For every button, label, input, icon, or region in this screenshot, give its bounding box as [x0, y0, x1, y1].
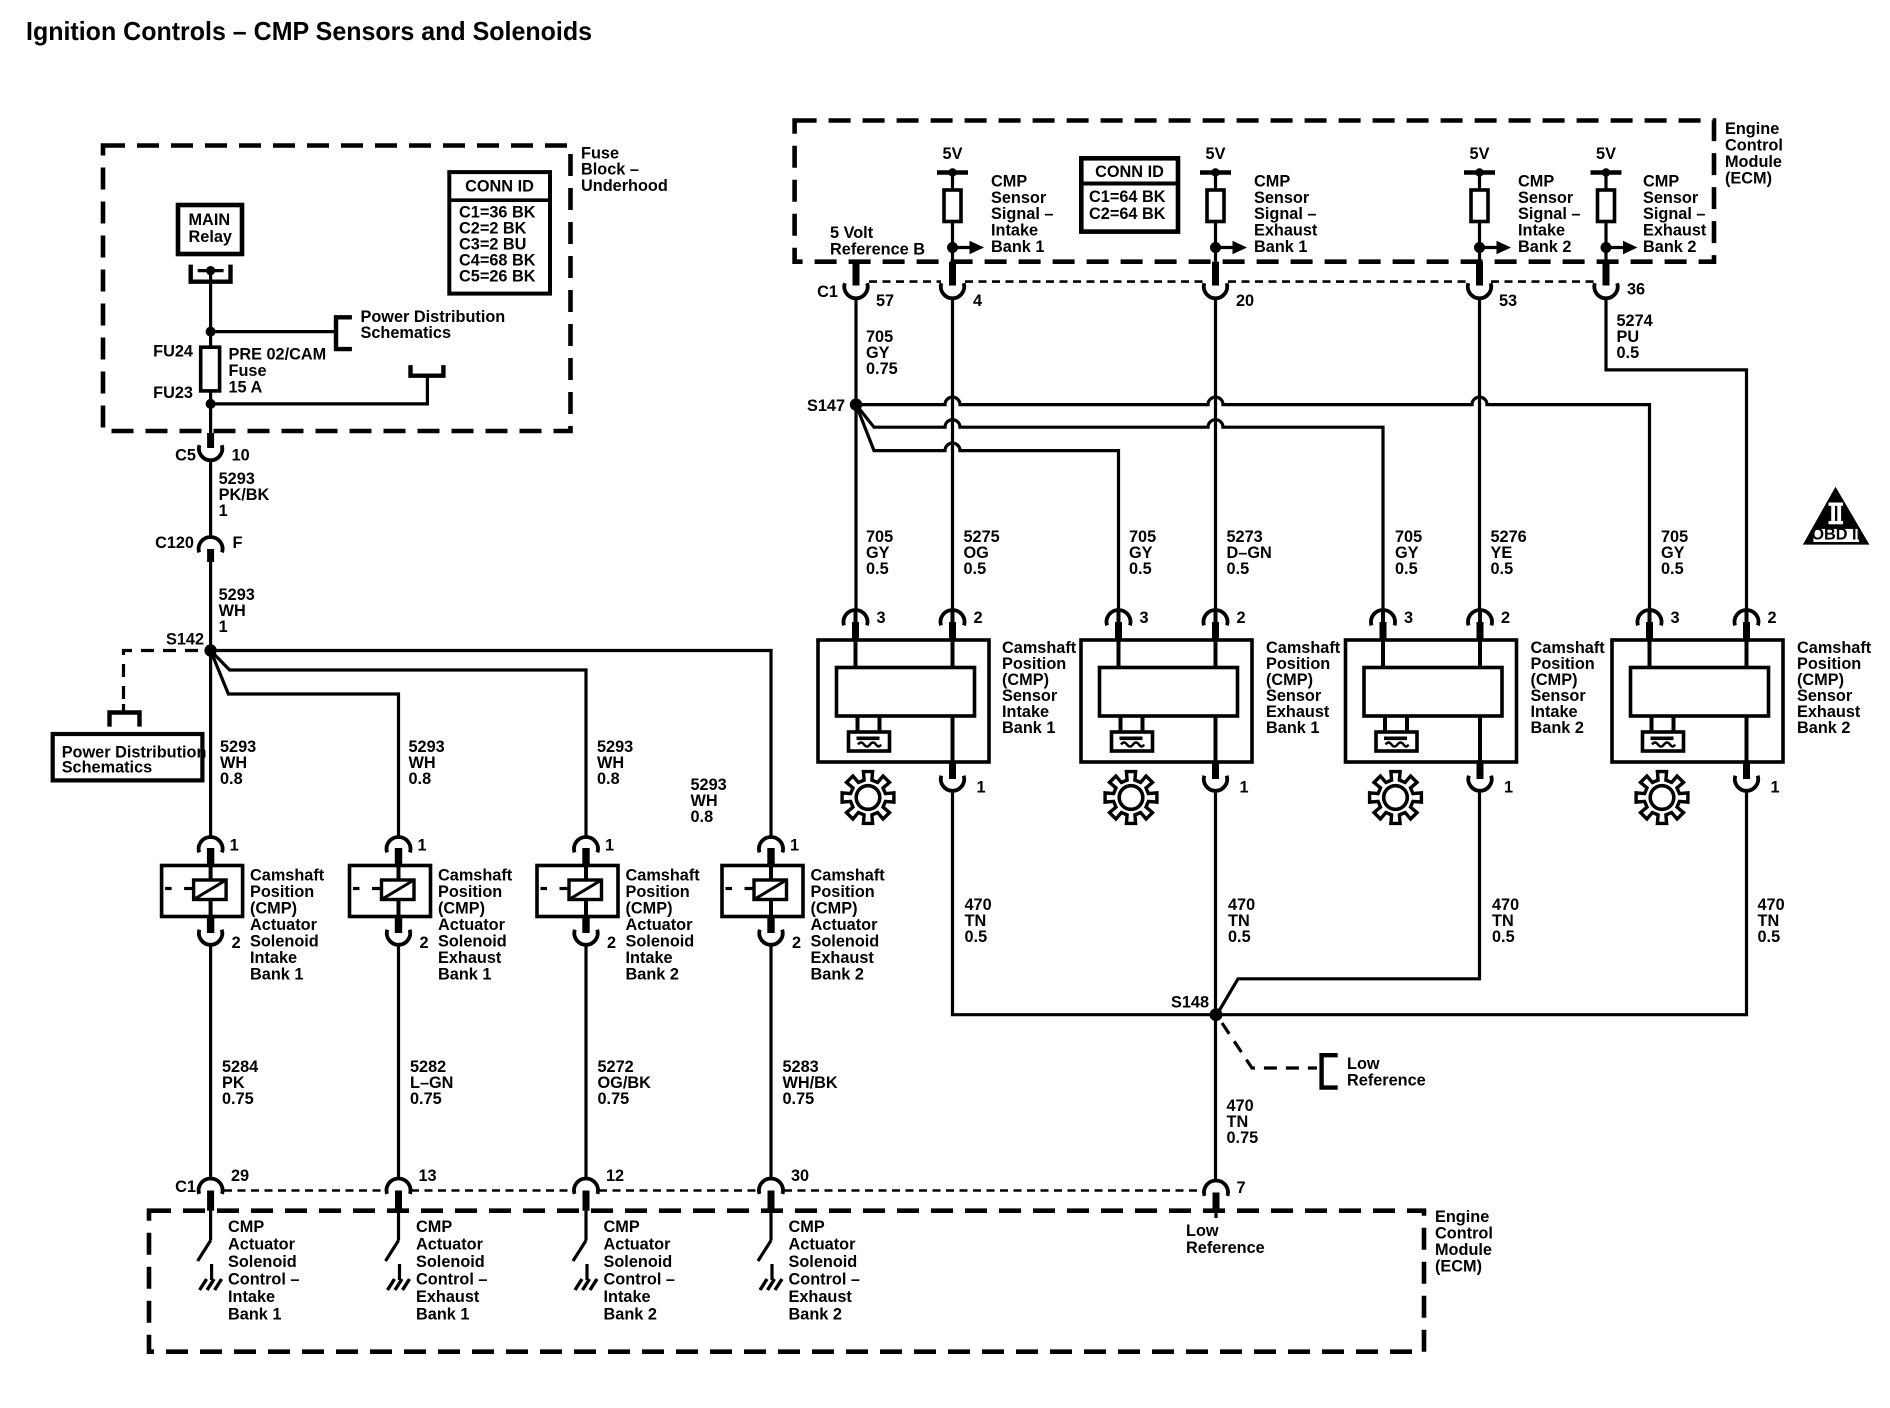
svg-text:C1: C1	[175, 1178, 196, 1196]
node junction below fuse	[206, 399, 216, 409]
svg-text:0.5: 0.5	[965, 928, 988, 946]
CONN ID table (ECM)	[1081, 158, 1178, 231]
Power Distribution Schematics reference box	[53, 734, 207, 780]
svg-text:Actuator: Actuator	[438, 916, 506, 934]
wire 470 TN 0.5 sensor 2 pin 1 through S148	[1216, 791, 1256, 1181]
svg-text:0.5: 0.5	[1491, 560, 1514, 578]
svg-text:0.5: 0.5	[1227, 560, 1250, 578]
svg-text:MAIN: MAIN	[189, 211, 231, 229]
relay K: MAIN Relay	[178, 205, 242, 282]
svg-text:(CMP): (CMP)	[438, 900, 485, 918]
wire S142 right to solenoid 4	[211, 651, 771, 839]
svg-text:Intake: Intake	[250, 949, 297, 967]
svg-text:57: 57	[876, 292, 894, 310]
wire S142 down to solenoid 1	[209, 651, 212, 839]
svg-text:CMP: CMP	[416, 1218, 452, 1236]
svg-text:Intake: Intake	[228, 1288, 275, 1306]
svg-text:Actuator: Actuator	[416, 1236, 484, 1254]
svg-text:Bank 1: Bank 1	[1002, 719, 1055, 737]
svg-text:Position: Position	[811, 883, 875, 901]
svg-text:Solenoid: Solenoid	[416, 1253, 485, 1271]
svg-text:Exhaust: Exhaust	[1254, 222, 1318, 240]
5V supply for CMP sensor signal intake bank 1	[937, 145, 984, 298]
svg-text:Sensor: Sensor	[1643, 189, 1699, 207]
svg-text:Schematics: Schematics	[62, 759, 153, 777]
connector C5 pin 10	[175, 433, 250, 464]
CONN ID table (fuse block)	[449, 172, 550, 294]
svg-text:CMP: CMP	[1643, 173, 1679, 191]
svg-text:Position: Position	[626, 883, 690, 901]
solenoid L1: CMP actuator solenoid intake bank 1	[162, 837, 325, 984]
5V supply for CMP sensor signal exhaust bank 1	[1200, 145, 1247, 298]
svg-text:3: 3	[877, 609, 886, 627]
wire from MAIN relay down to junction	[209, 272, 212, 332]
fuse block underhood dashed enclosure	[103, 144, 668, 431]
connector C1 (ECM bottom) dotted row	[175, 1178, 1202, 1196]
svg-text:Solenoid: Solenoid	[438, 933, 507, 951]
svg-text:F: F	[233, 534, 243, 552]
svg-text:Bank 2: Bank 2	[1797, 719, 1850, 737]
svg-text:Fuse: Fuse	[229, 362, 267, 380]
svg-text:2: 2	[1501, 609, 1510, 627]
svg-text:Solenoid: Solenoid	[604, 1253, 673, 1271]
svg-text:Signal –: Signal –	[991, 205, 1053, 223]
OBD II symbol	[1803, 487, 1870, 545]
ECM driver: CMP actuator solenoid control - intake bank 2	[573, 1178, 675, 1323]
svg-text:2: 2	[232, 934, 241, 952]
svg-text:Bank 2: Bank 2	[626, 966, 679, 984]
svg-text:0.5: 0.5	[866, 560, 889, 578]
wire label 5293 WH 0.8 (solenoid 2)	[409, 738, 445, 788]
CMP sensor B3: camshaft position sensor intake bank 2	[1346, 609, 1606, 823]
wire label 5276 YE 0.5 (sensor 3 pin 2)	[1491, 528, 1527, 578]
svg-text:Fuse: Fuse	[581, 144, 619, 162]
splice S147	[807, 397, 862, 415]
svg-text:S142: S142	[166, 631, 204, 649]
svg-text:Sensor: Sensor	[991, 189, 1047, 207]
svg-text:(ECM): (ECM)	[1435, 1258, 1482, 1276]
solenoid L3: CMP actuator solenoid intake bank 2	[537, 837, 700, 984]
svg-text:0.8: 0.8	[597, 770, 620, 788]
ECM driver: CMP actuator solenoid control - exhaust bank 2	[758, 1178, 860, 1323]
svg-text:0.8: 0.8	[220, 770, 243, 788]
svg-text:C1=64 BK: C1=64 BK	[1089, 188, 1166, 206]
svg-text:2: 2	[974, 609, 983, 627]
svg-text:Bank 1: Bank 1	[991, 238, 1044, 256]
svg-text:0.5: 0.5	[1758, 928, 1781, 946]
svg-text:Bank 2: Bank 2	[811, 966, 864, 984]
svg-text:Camshaft: Camshaft	[250, 867, 325, 885]
svg-text:Solenoid: Solenoid	[228, 1253, 297, 1271]
CMP sensor B1: camshaft position sensor intake bank 1	[818, 609, 1077, 823]
svg-text:1: 1	[219, 618, 228, 636]
svg-text:1: 1	[1240, 779, 1249, 797]
svg-text:Schematics: Schematics	[361, 324, 452, 342]
wire 470 TN 0.5 sensor 1 pin 1 to S148	[953, 791, 1211, 1015]
svg-text:Engine: Engine	[1435, 1208, 1489, 1226]
svg-text:CMP: CMP	[789, 1218, 825, 1236]
wire CMP signal exhaust bank 1 (pin 20 down)	[1214, 298, 1217, 613]
svg-text:Actuator: Actuator	[604, 1236, 672, 1254]
connector C1 pin 7	[1204, 1179, 1246, 1211]
off-page bracket to Power Distribution Schematics	[336, 308, 505, 349]
svg-text:Control –: Control –	[789, 1271, 860, 1289]
svg-text:CONN ID: CONN ID	[1095, 163, 1164, 181]
svg-text:C1: C1	[817, 283, 838, 301]
svg-text:4: 4	[973, 292, 982, 310]
svg-text:1: 1	[1504, 779, 1513, 797]
CMP Sensor Signal - Exhaust Bank 2 label	[1643, 173, 1707, 256]
svg-text:Low: Low	[1186, 1222, 1219, 1240]
svg-text:30: 30	[791, 1167, 809, 1185]
svg-text:0.5: 0.5	[1661, 560, 1684, 578]
svg-text:Bank 1: Bank 1	[228, 1306, 281, 1324]
5V supply for CMP sensor signal intake bank 2	[1464, 145, 1511, 298]
off-page bracket (ground side)	[411, 365, 444, 376]
dashed reference wire from S142 to power distribution	[124, 651, 199, 707]
svg-text:Control: Control	[1435, 1225, 1493, 1243]
engine control module (ECM) top dashed enclosure	[795, 120, 1783, 262]
svg-text:CMP: CMP	[1518, 173, 1554, 191]
svg-text:OBD II: OBD II	[1811, 525, 1861, 543]
svg-text:Exhaust: Exhaust	[1643, 222, 1707, 240]
wire junction to ground-side bracket	[211, 376, 428, 404]
svg-text:Bank 1: Bank 1	[1254, 238, 1307, 256]
connector C1 pin 57	[844, 262, 894, 310]
svg-text:0.5: 0.5	[1617, 344, 1640, 362]
svg-text:Solenoid: Solenoid	[250, 933, 319, 951]
svg-text:Control –: Control –	[228, 1271, 299, 1289]
svg-text:Bank 1: Bank 1	[416, 1306, 469, 1324]
svg-text:Exhaust: Exhaust	[438, 949, 502, 967]
wire CMP signal intake bank 2 (pin 53 down)	[1478, 298, 1481, 613]
wire CMP signal intake bank 1 (pin 4 down)	[951, 298, 954, 613]
svg-text:Signal –: Signal –	[1518, 205, 1580, 223]
svg-text:Solenoid: Solenoid	[626, 933, 695, 951]
wire label 5293 WH 0.8 (solenoid 4)	[691, 776, 727, 826]
svg-text:3: 3	[1404, 609, 1413, 627]
svg-text:C5=26 BK: C5=26 BK	[459, 268, 536, 286]
connector C120 pin F	[155, 534, 242, 562]
svg-text:Exhaust: Exhaust	[416, 1288, 480, 1306]
svg-text:2: 2	[420, 934, 429, 952]
wire pin 7 into ECM	[1214, 1211, 1217, 1218]
wire junction to power distribution bracket	[211, 330, 336, 333]
svg-text:FU23: FU23	[153, 384, 193, 402]
svg-text:13: 13	[419, 1167, 437, 1185]
svg-text:CMP: CMP	[991, 173, 1027, 191]
svg-text:Actuator: Actuator	[228, 1236, 296, 1254]
svg-text:PRE 02/CAM: PRE 02/CAM	[229, 345, 327, 363]
svg-text:0.75: 0.75	[598, 1090, 630, 1108]
solenoid L2: CMP actuator solenoid exhaust bank 1	[350, 837, 513, 984]
svg-text:15 A: 15 A	[229, 378, 263, 396]
wire label 5275 OG 0.5 (sensor 1 pin 2)	[964, 528, 1000, 578]
wire label 705 GY 0.5 (sensor 4 pin 3)	[1661, 528, 1688, 578]
svg-text:0.8: 0.8	[691, 808, 714, 826]
wire 470 TN 0.5 sensor 4 pin 1 to S148	[1222, 791, 1785, 1015]
svg-text:1: 1	[219, 502, 228, 520]
wire S142 to solenoid 2	[211, 651, 399, 839]
svg-text:Control –: Control –	[416, 1271, 487, 1289]
wire S147 to sensor 4 pin 3 (hops over signal wires)	[856, 397, 1650, 612]
svg-text:CMP: CMP	[228, 1218, 264, 1236]
svg-text:Exhaust: Exhaust	[811, 949, 875, 967]
svg-text:Camshaft: Camshaft	[438, 867, 513, 885]
wire solenoid 3 to ECM pin 12 (5272 OG/BK 0.75)	[586, 945, 651, 1179]
svg-text:C120: C120	[155, 534, 194, 552]
svg-text:1: 1	[605, 837, 614, 855]
svg-text:(CMP): (CMP)	[626, 900, 673, 918]
svg-text:C2=64 BK: C2=64 BK	[1089, 205, 1166, 223]
ECM driver: CMP actuator solenoid control - intake bank 1	[198, 1178, 300, 1323]
svg-text:S148: S148	[1171, 994, 1209, 1012]
svg-text:Sensor: Sensor	[1518, 189, 1574, 207]
splice S148	[1171, 994, 1223, 1022]
svg-text:Solenoid: Solenoid	[789, 1253, 858, 1271]
svg-text:Reference: Reference	[1186, 1239, 1265, 1257]
svg-text:1: 1	[1771, 779, 1780, 797]
svg-text:1: 1	[418, 837, 427, 855]
dashed reference wire from S148 to low reference bracket	[1222, 1023, 1317, 1068]
svg-text:CONN ID: CONN ID	[465, 178, 534, 196]
svg-text:53: 53	[1499, 292, 1517, 310]
wire label 705 GY 0.5 (sensor 1 pin 3)	[866, 528, 893, 578]
svg-text:Ignition Controls – CMP Sensor: Ignition Controls – CMP Sensors and Sole…	[26, 16, 592, 46]
wire label 705 GY 0.5 (sensor 2 pin 3)	[1129, 528, 1156, 578]
CMP Sensor Signal - Intake Bank 1 label	[991, 173, 1053, 256]
svg-text:Signal –: Signal –	[1643, 205, 1705, 223]
connector C1 (ECM top) dotted row	[817, 282, 1594, 301]
svg-text:2: 2	[1768, 609, 1777, 627]
svg-text:CMP: CMP	[1254, 173, 1290, 191]
wire 470 TN 0.5 sensor 3 pin 1 to S148	[1219, 791, 1519, 1012]
low reference label (ECM internal)	[1186, 1222, 1265, 1257]
svg-text:Bank 2: Bank 2	[1531, 719, 1584, 737]
svg-text:5V: 5V	[1470, 145, 1490, 163]
wire label 5273 D-GN 0.5 (sensor 2 pin 2)	[1227, 528, 1272, 578]
svg-text:CMP: CMP	[604, 1218, 640, 1236]
svg-text:Bank 1: Bank 1	[1266, 719, 1319, 737]
svg-text:Actuator: Actuator	[250, 916, 318, 934]
CMP sensor B4: camshaft position sensor exhaust bank 2	[1612, 609, 1872, 823]
splice S142	[166, 631, 217, 657]
svg-text:Intake: Intake	[1518, 222, 1565, 240]
svg-text:Actuator: Actuator	[626, 916, 694, 934]
wire solenoid 1 to ECM pin 29 (5284 PK 0.75)	[211, 945, 259, 1179]
fork bracket to power distribution schematics	[110, 704, 140, 727]
svg-text:10: 10	[232, 446, 250, 464]
svg-text:5 Volt: 5 Volt	[830, 224, 874, 242]
svg-text:Solenoid: Solenoid	[811, 933, 880, 951]
svg-text:Low: Low	[1347, 1055, 1380, 1073]
wire S147 down to sensor 1 pin 3	[854, 405, 857, 612]
svg-text:1: 1	[230, 837, 239, 855]
svg-text:Bank 2: Bank 2	[789, 1306, 842, 1324]
wire solenoid 4 to ECM pin 30 (5283 WH/BK 0.75)	[771, 945, 838, 1179]
off-page bracket low reference	[1322, 1055, 1426, 1090]
svg-text:Camshaft: Camshaft	[811, 867, 886, 885]
wire solenoid 2 to ECM pin 13 (5282 L-GN 0.75)	[399, 945, 454, 1179]
wire S147 to sensor 3 pin 3	[856, 405, 1383, 612]
svg-text:2: 2	[607, 934, 616, 952]
svg-text:3: 3	[1671, 609, 1680, 627]
svg-text:12: 12	[606, 1167, 624, 1185]
svg-text:Control: Control	[1725, 137, 1783, 155]
svg-text:0.75: 0.75	[410, 1090, 442, 1108]
svg-text:Bank 2: Bank 2	[1518, 238, 1571, 256]
svg-text:1: 1	[790, 837, 799, 855]
svg-text:Module: Module	[1725, 153, 1782, 171]
svg-text:(ECM): (ECM)	[1725, 170, 1772, 188]
svg-text:3: 3	[1140, 609, 1149, 627]
svg-text:(CMP): (CMP)	[811, 900, 858, 918]
svg-text:Signal –: Signal –	[1254, 205, 1316, 223]
wire 5274 PU 0.5 (pin 36 to sensor 4 pin 2)	[1606, 298, 1747, 613]
svg-text:1: 1	[977, 779, 986, 797]
wire fuse to connector C5	[209, 404, 212, 434]
svg-text:Bank 1: Bank 1	[250, 966, 303, 984]
svg-text:Reference B: Reference B	[830, 241, 925, 259]
svg-text:Module: Module	[1435, 1241, 1492, 1259]
svg-text:Position: Position	[438, 883, 502, 901]
wire label 705 GY 0.5 (sensor 3 pin 3)	[1395, 528, 1422, 578]
svg-text:Control –: Control –	[604, 1271, 675, 1289]
5 Volt Reference B label	[830, 224, 925, 258]
svg-text:5V: 5V	[1206, 145, 1226, 163]
svg-text:0.75: 0.75	[866, 360, 898, 378]
wire 470 TN 0.75 S148 to ECM pin 7	[1227, 1097, 1259, 1147]
wire S147 to sensor 2 pin 3	[856, 405, 1119, 612]
svg-text:0.5: 0.5	[1395, 560, 1418, 578]
fuse FU24/FU23 PRE O2/CAM 15A	[153, 332, 326, 404]
svg-text:Sensor: Sensor	[1254, 189, 1310, 207]
svg-text:Intake: Intake	[626, 949, 673, 967]
svg-text:(CMP): (CMP)	[250, 900, 297, 918]
CMP Sensor Signal - Intake Bank 2 label	[1518, 173, 1580, 256]
svg-text:Engine: Engine	[1725, 120, 1779, 138]
svg-text:0.5: 0.5	[1492, 928, 1515, 946]
svg-text:0.75: 0.75	[222, 1090, 254, 1108]
svg-text:2: 2	[792, 934, 801, 952]
svg-text:Actuator: Actuator	[811, 916, 879, 934]
svg-text:0.5: 0.5	[1228, 928, 1251, 946]
svg-text:0.5: 0.5	[1129, 560, 1152, 578]
wire 5293 WH 1	[211, 562, 255, 651]
solenoid L4: CMP actuator solenoid exhaust bank 2	[722, 837, 885, 984]
svg-text:Reference: Reference	[1347, 1072, 1426, 1090]
engine control module (ECM) bottom dashed enclosure	[149, 1208, 1493, 1352]
svg-text:Camshaft: Camshaft	[626, 867, 701, 885]
svg-text:5V: 5V	[1596, 145, 1616, 163]
svg-text:0.5: 0.5	[964, 560, 987, 578]
node junction above fuse	[206, 327, 216, 337]
wire 5293 PK/BK 1	[211, 460, 270, 537]
svg-text:2: 2	[1237, 609, 1246, 627]
svg-text:29: 29	[231, 1167, 249, 1185]
svg-text:Intake: Intake	[991, 222, 1038, 240]
svg-text:Bank 1: Bank 1	[438, 966, 491, 984]
svg-text:Block –: Block –	[581, 161, 639, 179]
svg-text:0.75: 0.75	[783, 1090, 815, 1108]
wire label 5293 WH 0.8 (solenoid 3)	[597, 738, 633, 788]
svg-text:0.75: 0.75	[1227, 1129, 1259, 1147]
svg-text:Relay: Relay	[189, 228, 232, 246]
svg-text:C5: C5	[175, 446, 196, 464]
svg-text:20: 20	[1236, 292, 1254, 310]
CMP Sensor Signal - Exhaust Bank 1 label	[1254, 173, 1318, 256]
svg-text:S147: S147	[807, 397, 845, 415]
CMP sensor B2: camshaft position sensor exhaust bank 1	[1081, 609, 1341, 823]
svg-text:Underhood: Underhood	[581, 177, 668, 195]
svg-text:Intake: Intake	[604, 1288, 651, 1306]
svg-text:Actuator: Actuator	[789, 1236, 857, 1254]
svg-text:FU24: FU24	[153, 342, 193, 360]
svg-text:36: 36	[1627, 281, 1645, 299]
wire S142 to solenoid 3	[211, 651, 586, 839]
svg-text:Bank 2: Bank 2	[604, 1306, 657, 1324]
ECM driver: CMP actuator solenoid control - exhaust bank 1	[386, 1178, 488, 1323]
5V supply for CMP sensor signal exhaust bank 2	[1591, 145, 1638, 298]
svg-text:0.8: 0.8	[409, 770, 432, 788]
svg-text:Exhaust: Exhaust	[789, 1288, 853, 1306]
svg-text:Bank 2: Bank 2	[1643, 238, 1696, 256]
svg-text:5V: 5V	[943, 145, 963, 163]
svg-text:7: 7	[1237, 1179, 1246, 1197]
svg-text:Position: Position	[250, 883, 314, 901]
wire 705 GY 0.75 (pin 57 to S147)	[856, 298, 898, 405]
wire label 5293 WH 0.8 (solenoid 1)	[220, 738, 256, 788]
